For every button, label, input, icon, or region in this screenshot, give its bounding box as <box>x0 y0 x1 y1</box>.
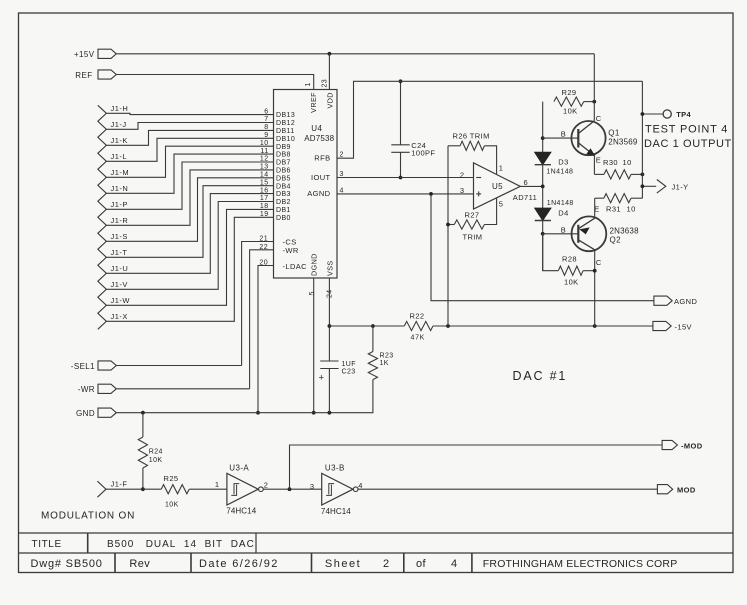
wire J1-S to DB5 <box>106 178 273 242</box>
wire J1-X to DB0 <box>106 217 273 321</box>
svg-text:74HC14: 74HC14 <box>321 507 351 516</box>
svg-text:+15V: +15V <box>74 50 95 59</box>
svg-text:10: 10 <box>260 140 269 147</box>
svg-text:J1-R: J1-R <box>111 216 129 225</box>
svg-text:TEST POINT 4: TEST POINT 4 <box>645 124 728 136</box>
svg-text:VREF: VREF <box>309 92 318 113</box>
svg-text:1N4148: 1N4148 <box>547 200 574 207</box>
svg-text:47K: 47K <box>411 335 426 342</box>
svg-text:Q2: Q2 <box>610 236 622 245</box>
wire output node vertical <box>641 81 643 198</box>
svg-text:R26 TRIM: R26 TRIM <box>453 131 490 140</box>
svg-text:DB0: DB0 <box>276 215 291 222</box>
connector J1 chevron chain <box>98 105 107 329</box>
svg-text:VSS: VSS <box>326 260 335 276</box>
svg-text:DB12: DB12 <box>276 120 295 127</box>
resistor R24 10K <box>142 413 144 437</box>
svg-text:J1-W: J1-W <box>111 296 131 305</box>
svg-text:DB5: DB5 <box>276 175 291 182</box>
svg-text:18: 18 <box>260 203 269 210</box>
tag -SEL1 <box>98 361 116 370</box>
svg-text:R30: R30 <box>603 158 618 167</box>
svg-text:U4: U4 <box>311 124 322 133</box>
svg-text:14: 14 <box>260 172 269 179</box>
resistor R28 10K <box>543 234 559 271</box>
svg-text:2N3569: 2N3569 <box>608 137 638 146</box>
svg-text:DB9: DB9 <box>276 144 291 151</box>
svg-text:1N4148: 1N4148 <box>546 169 573 176</box>
svg-text:1: 1 <box>305 82 312 86</box>
resistor R26 TRIM <box>484 146 496 175</box>
svg-text:11: 11 <box>260 148 268 155</box>
capacitor C24 100PF <box>400 81 402 145</box>
svg-text:FROTHINGHAM ELECTRONICS CORP: FROTHINGHAM ELECTRONICS CORP <box>483 558 678 570</box>
svg-text:J1-N: J1-N <box>111 184 129 193</box>
svg-text:9: 9 <box>264 132 268 139</box>
svg-text:J1-Y: J1-Y <box>672 182 689 191</box>
svg-text:10: 10 <box>623 158 632 167</box>
svg-text:24: 24 <box>327 289 334 298</box>
svg-text:J1-K: J1-K <box>111 136 128 145</box>
wire J1-J to DB12 <box>106 123 273 130</box>
svg-text:DAC #1: DAC #1 <box>513 369 568 383</box>
wire AGND pin to op-amp + <box>337 193 474 195</box>
node J1-F input <box>97 481 106 497</box>
svg-text:C23: C23 <box>342 368 356 375</box>
svg-text:10K: 10K <box>165 501 179 508</box>
tag -MOD <box>662 440 677 449</box>
svg-text:Dwg# SB500: Dwg# SB500 <box>31 558 103 570</box>
svg-text:J1-H: J1-H <box>111 104 129 113</box>
svg-text:4: 4 <box>451 558 458 570</box>
wire J1-F to R25 <box>106 488 161 490</box>
op-amp U4 AD7538 body <box>274 90 338 279</box>
svg-text:R27: R27 <box>465 210 480 219</box>
svg-text:DB10: DB10 <box>276 136 295 143</box>
wire J1-M to DB9 <box>106 146 273 177</box>
svg-text:10K: 10K <box>564 277 579 286</box>
svg-text:-WR: -WR <box>283 246 299 255</box>
svg-text:J1-V: J1-V <box>111 280 128 289</box>
svg-text:17: 17 <box>260 195 269 202</box>
svg-text:-LDAC: -LDAC <box>283 262 308 271</box>
svg-text:GND: GND <box>76 409 95 418</box>
svg-text:D3: D3 <box>558 158 568 167</box>
svg-text:U5: U5 <box>492 182 503 191</box>
diode D3 1N4148 <box>535 152 551 164</box>
svg-text:AGND: AGND <box>674 297 697 306</box>
transistor Q1 2N3569 <box>571 121 605 155</box>
svg-text:1K: 1K <box>380 360 389 367</box>
svg-text:10K: 10K <box>149 457 163 464</box>
svg-text:E: E <box>596 156 601 165</box>
svg-text:DB4: DB4 <box>276 183 291 190</box>
svg-text:MOD: MOD <box>677 486 696 495</box>
wire RFB pin2 feedback to output node <box>337 81 642 158</box>
op-amp U5 AD711 <box>474 163 521 209</box>
svg-text:R28: R28 <box>562 254 577 263</box>
svg-text:15: 15 <box>260 179 269 186</box>
resistor R25 10K <box>161 485 189 494</box>
wire VSS pin 24 down <box>328 278 330 361</box>
svg-text:DB13: DB13 <box>276 112 295 119</box>
wire REF to VREF pin 1 <box>116 75 313 90</box>
wire IOUT to op-amp <box>337 177 474 179</box>
capacitor C23 1UF <box>320 360 338 362</box>
svg-text:J1-J: J1-J <box>111 120 127 129</box>
svg-text:DB6: DB6 <box>276 168 291 175</box>
svg-text:TP4: TP4 <box>676 110 691 119</box>
svg-text:U3-B: U3-B <box>325 463 345 472</box>
wire -LDAC to GND rail <box>258 266 274 413</box>
svg-text:23: 23 <box>322 79 329 88</box>
wire -15V rail <box>433 325 653 327</box>
svg-text:TITLE: TITLE <box>32 539 62 550</box>
svg-text:74HC14: 74HC14 <box>226 506 256 515</box>
test point TP4 <box>642 113 663 115</box>
svg-text:DB8: DB8 <box>276 152 291 159</box>
svg-text:2: 2 <box>264 480 269 489</box>
wire MOD line <box>358 488 657 490</box>
svg-text:2: 2 <box>460 170 465 179</box>
svg-text:2: 2 <box>383 558 390 570</box>
svg-text:IOUT: IOUT <box>311 173 331 182</box>
svg-text:J1-M: J1-M <box>111 168 130 177</box>
wire J1-N to DB8 <box>106 154 273 193</box>
wire J1-W to DB1 <box>106 209 273 305</box>
svg-text:DB3: DB3 <box>276 191 291 198</box>
svg-text:RFB: RFB <box>314 154 330 163</box>
svg-text:4: 4 <box>340 187 344 194</box>
wire J1-U to DB3 <box>106 194 273 274</box>
svg-text:Sheet: Sheet <box>325 558 361 570</box>
resistor R30 10 <box>594 173 604 175</box>
wire diode string node <box>542 102 544 271</box>
wire R25 to U3-A <box>189 488 227 490</box>
svg-text:-15V: -15V <box>675 322 692 331</box>
wire J1-P to DB7 <box>106 162 273 209</box>
svg-text:6: 6 <box>524 178 529 187</box>
power tag +15V <box>98 49 116 58</box>
svg-text:R22: R22 <box>410 311 425 320</box>
wire DGND pin 5 to GND rail <box>313 278 315 413</box>
svg-text:AD711: AD711 <box>513 193 537 202</box>
svg-text:R23: R23 <box>380 352 394 359</box>
svg-text:VDD: VDD <box>325 92 334 108</box>
svg-text:12: 12 <box>260 156 269 163</box>
svg-text:TRIM: TRIM <box>463 232 483 241</box>
svg-text:J1-S: J1-S <box>111 232 128 241</box>
svg-text:6: 6 <box>264 108 268 115</box>
svg-text:of: of <box>416 558 427 570</box>
wire -MOD line <box>290 445 663 489</box>
resistor R23 1K <box>372 326 374 352</box>
svg-text:DGND: DGND <box>310 253 319 276</box>
wire U3-A out to U3-B <box>263 488 322 490</box>
svg-text:U3-A: U3-A <box>229 463 249 472</box>
svg-text:5: 5 <box>309 291 316 295</box>
svg-text:DB1: DB1 <box>276 207 291 214</box>
resistor R22 47K <box>329 325 404 327</box>
wire -WR pin to -WR tag <box>250 250 274 389</box>
svg-text:B: B <box>561 225 566 234</box>
svg-text:D4: D4 <box>558 209 568 218</box>
svg-text:R31: R31 <box>606 204 621 213</box>
svg-text:C: C <box>596 114 602 123</box>
svg-text:R29: R29 <box>562 88 577 97</box>
svg-text:AGND: AGND <box>307 189 330 198</box>
svg-text:J1-X: J1-X <box>111 312 128 321</box>
wire J1-R to DB6 <box>106 170 273 225</box>
wire op-amp output pin 6 <box>520 185 543 187</box>
svg-text:10: 10 <box>627 204 636 213</box>
svg-text:1: 1 <box>499 163 504 172</box>
wire VDD pin 23 <box>328 54 330 90</box>
svg-text:REF: REF <box>75 71 92 80</box>
svg-text:3: 3 <box>310 482 315 491</box>
svg-text:J1-T: J1-T <box>111 248 128 257</box>
svg-text:7: 7 <box>264 116 268 123</box>
wire J1-K to DB11 <box>106 130 273 145</box>
resistor R27 TRIM <box>484 198 496 224</box>
svg-text:B500 DUAL 14 BIT DAC: B500 DUAL 14 BIT DAC <box>107 539 255 550</box>
svg-text:R24: R24 <box>149 448 163 455</box>
tag AGND <box>654 296 672 305</box>
wire trim network to -15V <box>447 146 449 326</box>
node J1-Y output arrow <box>642 185 656 187</box>
wire J1-H to DB13 <box>106 113 273 114</box>
svg-text:19: 19 <box>260 211 269 218</box>
node VDD junction <box>328 52 332 56</box>
transistor Q2 2N3638 <box>572 216 607 251</box>
svg-text:DB7: DB7 <box>276 160 291 167</box>
svg-text:J1-F: J1-F <box>111 480 128 489</box>
wire -CS to -SEL1 <box>242 242 274 366</box>
svg-text:Q1: Q1 <box>608 128 620 137</box>
svg-text:-MOD: -MOD <box>681 441 703 450</box>
svg-text:AD7538: AD7538 <box>304 134 334 143</box>
tag -15V <box>653 321 671 330</box>
svg-text:2N3638: 2N3638 <box>610 227 640 236</box>
tag REF <box>98 70 116 79</box>
svg-text:5: 5 <box>499 199 504 208</box>
svg-text:J1-P: J1-P <box>111 200 128 209</box>
title block lines <box>19 532 734 534</box>
tag GND <box>98 408 116 417</box>
resistor R29 10K <box>554 97 584 106</box>
svg-text:Rev: Rev <box>129 558 150 570</box>
svg-text:J1-U: J1-U <box>111 264 129 273</box>
wire +15V rail <box>116 53 594 55</box>
svg-text:+: + <box>319 373 325 384</box>
svg-text:1: 1 <box>215 480 220 489</box>
wire GND rail <box>116 380 373 413</box>
resistor R31 10 <box>631 197 642 199</box>
svg-text:Date 6/26/92: Date 6/26/92 <box>199 558 279 570</box>
svg-text:B: B <box>561 130 566 139</box>
svg-text:DB2: DB2 <box>276 199 291 206</box>
wire J1-T to DB4 <box>106 186 273 258</box>
svg-text:100PF: 100PF <box>411 148 435 157</box>
svg-text:R25: R25 <box>164 474 179 483</box>
wire J1-V to DB2 <box>106 202 273 290</box>
svg-text:4: 4 <box>358 481 363 490</box>
svg-text:-WR: -WR <box>78 385 95 394</box>
svg-text:J1-L: J1-L <box>111 152 128 161</box>
svg-text:1UF: 1UF <box>342 361 356 368</box>
svg-text:MODULATION ON: MODULATION ON <box>41 510 135 521</box>
tag -WR <box>98 384 116 393</box>
svg-text:13: 13 <box>260 164 269 171</box>
svg-text:-SEL1: -SEL1 <box>71 362 95 371</box>
svg-text:3: 3 <box>460 186 465 195</box>
tag MOD <box>657 485 672 494</box>
wire J1-L to DB10 <box>106 138 273 161</box>
svg-text:DAC 1 OUTPUT: DAC 1 OUTPUT <box>644 138 732 150</box>
svg-text:10K: 10K <box>563 107 578 116</box>
svg-text:8: 8 <box>264 124 268 131</box>
svg-text:C: C <box>596 258 602 267</box>
svg-text:DB11: DB11 <box>276 128 295 135</box>
inverter U3-A 74HC14 <box>227 473 258 505</box>
wire AGND rail <box>431 194 654 301</box>
svg-text:16: 16 <box>260 187 269 194</box>
